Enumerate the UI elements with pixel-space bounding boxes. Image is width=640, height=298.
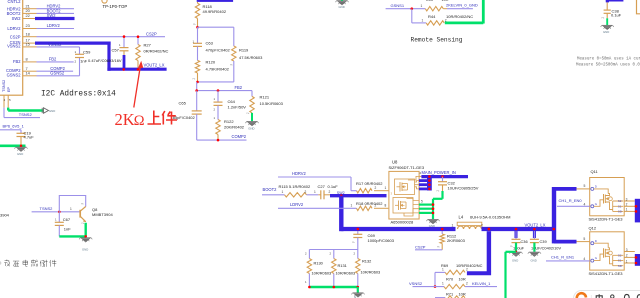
svg-text:1: 1 [626,208,628,212]
node R27 top [137,35,140,38]
rail junction dots [357,228,556,231]
svg-text:GND: GND [248,127,254,131]
svg-text:1000pF/C0603: 1000pF/C0603 [368,238,395,243]
svg-text:R131: R131 [338,263,347,268]
capacitor C69 [352,231,395,250]
wire HDRV2 pin 21 [37,4,75,9]
wire GSNS1 [386,7,426,10]
svg-text:470pF/C0402: 470pF/C0402 [206,48,231,53]
svg-text:CH1_R_EN0: CH1_R_EN0 [559,198,583,203]
svg-text:0.1uF: 0.1uF [328,184,339,189]
capacitor C63 [193,27,231,52]
svg-text:R132: R132 [362,259,371,264]
test point TP [102,0,107,3]
svg-text:CS2P: CS2P [10,34,21,39]
svg-text:R44: R44 [428,14,436,19]
IC bottom pin stubs [4,95,12,107]
resistor R118 [193,2,227,27]
svg-text:C64: C64 [228,99,236,104]
capacitor C65 [171,91,202,141]
wire COMP2 pin 7 [37,66,74,71]
wire SW2 thick to U8 [330,194,387,197]
capacitor C67 [55,212,71,237]
capacitor C19 [17,130,35,146]
svg-text:COMP2: COMP2 [232,134,247,139]
wire green C36 gnd [515,243,518,254]
svg-text:EP: EP [7,86,11,92]
IC pin names [2,0,21,92]
svg-text:TP-1P0-TOP: TP-1P0-TOP [103,4,128,9]
svg-text:1: 1 [282,190,284,194]
resistor R70 [442,276,468,289]
svg-text:4: 4 [584,203,586,207]
resistor R71 partial [435,291,466,298]
text measure note 1 [577,57,640,61]
svg-text:C32: C32 [448,180,456,185]
svg-text:TSNS2: TSNS2 [40,206,54,211]
ground below R121 [245,121,258,130]
svg-text:0R/R0402/NC: 0R/R0402/NC [144,49,169,54]
svg-text:R18 0R/R0402: R18 0R/R0402 [356,201,383,206]
svg-text:10R/R0402/NC: 10R/R0402/NC [456,263,483,268]
Q11 source pins [624,197,640,222]
svg-text:S2: S2 [618,253,622,257]
transistor Q8 [80,204,113,226]
resistor R17 [351,181,388,193]
wire CH1_R_EN1 [546,255,590,262]
svg-text:CS2P: CS2P [146,32,157,37]
svg-text:HDRV2: HDRV2 [292,171,307,176]
wire to FB2 node [196,82,198,91]
svg-text:Q12: Q12 [589,226,597,231]
svg-text:10UF/C0805/25V: 10UF/C0805/25V [448,186,479,191]
svg-text:22: 22 [26,13,30,18]
wire VSNS2 bottom [413,286,445,288]
wire BP6 net [0,130,21,134]
svg-text:GSNS2: GSNS2 [7,73,22,78]
resistor R69 [435,263,483,275]
wire VOUT2 rail left segment [341,227,455,231]
wire TSNS2 from pin [4,108,40,118]
svg-text:VOUT2_LX: VOUT2_LX [525,222,546,227]
svg-text:2: 2 [375,186,377,190]
wire green C32 to gnd [433,191,443,219]
wire GSNS1 down [412,9,426,23]
svg-text:5: 5 [421,199,423,203]
svg-text:10R/R0603: 10R/R0603 [361,270,381,275]
svg-text:2: 2 [375,204,377,208]
resistor R130 [305,250,331,288]
svg-text:10R/R0603: 10R/R0603 [336,271,356,276]
svg-text:2: 2 [626,203,628,207]
svg-text:SiS412DN-T1-GE3: SiS412DN-T1-GE3 [589,217,624,222]
svg-text:BOOT2: BOOT2 [263,187,278,192]
svg-text:1: 1 [626,259,628,263]
svg-text:CNTL2: CNTL2 [8,0,22,4]
svg-text:1: 1 [442,268,444,272]
node rail junctions [122,68,139,71]
MOSFET U8 package [389,160,425,219]
svg-text:R115 5.1R/R0402: R115 5.1R/R0402 [279,184,312,189]
wire green long down [506,252,516,298]
wire CH1_R_EN0 [557,198,590,207]
capacitor C64 [214,91,247,112]
svg-text:SiZF906DT-T1-GE3: SiZF906DT-T1-GE3 [389,165,425,170]
svg-text:LDRV2: LDRV2 [290,202,304,207]
wire VSNS2 pin 15 [37,42,80,47]
resistor R131 [330,250,356,288]
wire CS2P bottom [415,244,442,249]
svg-text:10R: 10R [459,276,466,281]
label BP6_6V5_1 [3,124,25,129]
capacitor C59 [75,49,92,63]
svg-text:SW2: SW2 [12,16,22,21]
svg-text:Measure 0=50mA uses 1A curr: Measure 0=50mA uses 1A curr [577,57,640,61]
svg-text:L4: L4 [459,215,464,220]
svg-text:4.7uF: 4.7uF [24,134,35,139]
svg-text:0.1uF: 0.1uF [611,13,622,18]
svg-text:LDRV2: LDRV2 [7,26,21,31]
svg-text:BP6_6V5_1: BP6_6V5_1 [3,124,25,129]
svg-text:2K/R0603: 2K/R0603 [447,238,466,243]
svg-text:8: 8 [26,57,28,62]
svg-text:S1: S1 [618,204,622,208]
svg-text:10.5K/R0603: 10.5K/R0603 [260,101,284,106]
ground C38 [601,25,614,34]
svg-text:C27: C27 [318,184,326,189]
wire U8 source stubs green [419,199,434,214]
transistor Q11 [589,169,625,221]
svg-text:I2C Address:0x14: I2C Address:0x14 [41,90,116,98]
ground below C19 [14,147,27,156]
resistor R44 [422,14,474,25]
svg-text:C63: C63 [206,41,214,46]
svg-text:CH1_R_EN1: CH1_R_EN1 [551,255,575,260]
svg-text:3904: 3904 [0,213,10,218]
wire thick Q12 feed [554,237,590,242]
wire GSNS2 pin 14 [37,71,80,76]
wire VOUT2 rail right segment [482,222,556,229]
svg-text:VSNS2: VSNS2 [409,281,423,286]
wire KELVIN_0_GND [446,3,478,9]
capacitor C36 [510,231,528,250]
svg-text:CS2P: CS2P [415,244,426,249]
resistor R122 [214,105,245,140]
wire green C39 gnd [533,243,535,252]
svg-text:Q11: Q11 [591,169,599,174]
wire COMP2 net [197,134,247,142]
svg-text:1.2nF/50V: 1.2nF/50V [228,105,247,110]
svg-text:15: 15 [26,42,30,47]
svg-text:R70: R70 [446,276,454,281]
capacitor C27 [314,184,338,199]
svg-text:SW2: SW2 [47,13,57,18]
svg-text:18: 18 [26,31,30,36]
wire green C38 gnd [606,13,608,25]
resistor R27 [136,37,169,68]
svg-text:GND: GND [531,258,537,262]
svg-text:3: 3 [626,197,628,201]
svg-text:Measure 50=2500mA uses 0.05: Measure 50=2500mA uses 0.05 [576,64,640,68]
svg-text:GND: GND [17,152,23,156]
svg-text:GND: GND [82,248,88,252]
wire HDRV2 net [278,171,351,191]
svg-text:2: 2 [626,254,628,258]
svg-text:5: 5 [583,237,585,241]
ground C36 [509,252,522,262]
inductor L4 [452,215,511,229]
label TP-1P0-TOP [103,4,128,9]
svg-text:TSNS2: TSNS2 [2,80,6,92]
svg-text:1: 1 [422,18,424,22]
svg-text:C67: C67 [63,217,71,222]
wire divider loop top [198,26,234,28]
resistor R43 top partial [421,0,449,11]
wire thick blue top right [606,0,624,2]
text measure note 2 [576,64,640,68]
svg-text:R17 0R/R0402: R17 0R/R0402 [356,181,383,186]
wire thick Q11 feed [554,184,590,189]
svg-text:4: 4 [583,257,585,261]
ground C39 [528,252,541,262]
svg-text:10UF/C0402/10V: 10UF/C0402/10V [531,245,561,250]
svg-text:C36: C36 [521,239,528,244]
GND off-page arrow [42,108,55,113]
wire LDRV2 net [278,202,357,208]
svg-text:FB2: FB2 [49,56,57,61]
svg-text:1: 1 [385,186,387,190]
svg-text:SiS412DN-T1-GE3: SiS412DN-T1-GE3 [589,271,624,276]
svg-text:1nF: 1nF [80,59,87,64]
svg-text:8: 8 [385,204,387,208]
svg-text:C57: C57 [112,48,120,53]
svg-text:1: 1 [421,4,423,8]
ground U8 [426,219,439,228]
svg-text:6UH-9.5A-0.0135OHM: 6UH-9.5A-0.0135OHM [470,215,510,220]
wire U8 drain stubs thick [419,175,432,190]
wire green snubber gnd [308,286,359,289]
svg-text:4.79K/R0402: 4.79K/R0402 [206,66,230,71]
svg-text:GSNS1: GSNS1 [391,3,405,8]
wire LDRV2 pin 23 [37,23,75,28]
annotation 2K ohm text [115,110,178,129]
svg-text:20K/R0402: 20K/R0402 [224,125,245,130]
svg-text:R122: R122 [224,119,234,124]
resistor R121 [247,91,284,115]
svg-text:GND: GND [603,30,609,34]
svg-text:VSNS2: VSNS2 [48,42,62,47]
svg-text:GND: GND [49,109,55,113]
floating toolbar [574,291,640,298]
wire VOUT2_LX rail thick [107,63,166,70]
wire BOOT2 net [262,187,285,195]
svg-text:KELVIN_1: KELVIN_1 [472,281,491,286]
wire FB2 net [195,85,252,92]
resistor R112 [437,231,466,250]
svg-text:FB2: FB2 [13,59,21,64]
resistor R120 [193,46,230,82]
svg-text:R121: R121 [260,95,270,100]
wire green BP6 gnd [0,145,26,148]
wire thick Q11 Q12 bar [552,187,556,243]
svg-text:VOUT2_LX: VOUT2_LX [144,63,165,68]
svg-text:2: 2 [466,268,468,272]
svg-text:100uF: 100uF [513,245,525,250]
svg-text:10R/R0603: 10R/R0603 [312,270,332,275]
svg-text:10R/R0402/NC: 10R/R0402/NC [446,14,473,19]
resistor R132 [354,250,381,288]
resistor R18 [351,201,389,211]
svg-text:S1: S1 [618,259,622,263]
svg-text:MAIN_POWER_IN: MAIN_POWER_IN [422,170,456,175]
wire MAIN_POWER_IN thick [419,170,468,177]
svg-text:0.47uF/C0603/16V: 0.47uF/C0603/16V [88,58,122,63]
label TSNS2 Q8 [40,206,54,211]
wire TSNS2 to Q8 base [32,207,80,213]
svg-text:R118: R118 [203,4,213,9]
svg-text:Ω: Ω [134,113,145,129]
wire FB2 pin 8 [37,56,74,62]
svg-text:VSNS2: VSNS2 [7,44,21,49]
resistor R119 [230,27,263,82]
annotation chinese place-near-inductor [0,260,56,267]
svg-text:A650000028: A650000028 [391,219,414,224]
capacitor C38 [602,2,622,19]
wire green to GND arrow [8,108,43,111]
svg-text:R43: R43 [426,0,433,2]
svg-text:LDRV2: LDRV2 [47,23,61,28]
svg-text:GND: GND [512,258,518,262]
ground snubber [351,287,364,298]
partial text 3904 [0,213,10,218]
svg-text:FB2: FB2 [235,85,243,90]
svg-text:1: 1 [452,223,454,227]
svg-text:1: 1 [442,282,444,286]
text Remote Sensing [411,36,463,43]
wire divider loop bottom [196,81,234,84]
svg-text:1: 1 [314,190,316,194]
svg-text:23: 23 [26,23,30,28]
wire R69 branch [434,272,437,288]
transistor Q12 [589,226,625,276]
svg-text:5: 5 [584,184,586,188]
svg-text:47.5K/R0603: 47.5K/R0603 [239,55,263,60]
capacitor C32 [437,175,479,192]
capacitor C39 [530,231,562,250]
svg-text:U8: U8 [392,160,398,165]
svg-text:2: 2 [481,223,483,227]
ground partial top [335,0,348,9]
svg-text:2: 2 [466,282,468,286]
svg-text:R27: R27 [144,43,152,48]
svg-text:MMBT3904: MMBT3904 [92,212,113,217]
svg-text:3: 3 [626,248,628,252]
node R118 bottom junction [196,26,199,29]
svg-text:GSNS2: GSNS2 [50,71,65,76]
svg-text:2KELVIN_0_GND: 2KELVIN_0_GND [446,3,478,8]
wire SW2 pin 22 thick [35,13,75,18]
resistor R115 [279,184,319,197]
wire thick L4 out down [467,228,491,274]
svg-text:R130: R130 [314,261,324,266]
svg-text:R119: R119 [239,48,249,53]
capacitor C57 [88,37,129,69]
wire KELVIN_1 [465,281,497,287]
wire CS2P net pin 18 [37,32,166,37]
text I2C address [41,90,116,98]
IC U7 main controller block [0,0,23,95]
label GSNS1 [391,3,405,8]
svg-text:C65: C65 [179,101,187,106]
svg-text:2: 2 [305,190,307,194]
svg-text:R120: R120 [206,59,216,64]
wire CS2N pin 17 thick to rail [35,42,111,71]
IC pin stubs and numbers [23,3,37,76]
ground Q8 [79,238,92,252]
svg-text:S2: S2 [618,199,622,203]
wire green R121 to gnd [251,113,253,121]
svg-text:1nF: 1nF [64,227,71,232]
wire green kelvin [445,0,484,24]
svg-text:TSNS2: TSNS2 [19,112,33,117]
svg-text:C59: C59 [83,49,91,54]
node C57 top [123,35,126,38]
label SW2 small [337,191,345,195]
wire C59 branch vertical [79,47,81,76]
Q12 source pins [624,248,640,266]
annotation red arrow [134,61,143,108]
wire SW2 bar down to rail [339,196,343,232]
wire green Q8 emitter gnd [59,223,87,238]
svg-text:GND: GND [339,5,345,9]
svg-text:10R: 10R [459,291,466,296]
wire tan right edge [637,0,640,14]
svg-text:1: 1 [351,204,353,208]
wire BOOT2 pin 20 [37,8,75,13]
wire snubber top [309,249,357,251]
svg-text:2: 2 [329,190,331,194]
svg-text:1: 1 [70,207,72,211]
wire Q8 collector loop [59,196,85,212]
svg-text:2K: 2K [115,110,135,129]
svg-text:49.9R/R0402: 49.9R/R0402 [203,9,227,14]
svg-text:C39: C39 [540,239,547,244]
label A650000028 [391,219,414,224]
svg-text:Remote Sensing: Remote Sensing [411,36,463,43]
label VSNS2 bottom [409,281,423,286]
wire SW2 stub top middle [197,0,233,2]
